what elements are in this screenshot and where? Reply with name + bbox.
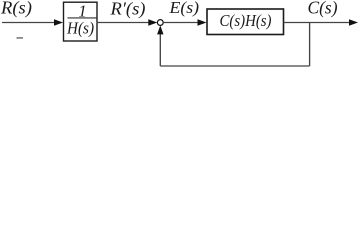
svg-text:H(s): H(s) [66,19,94,38]
wire feedback up segment with arrow into junction [159,32,161,66]
block U1 1/H(s) [64,2,98,41]
summing junction [157,20,163,26]
wire junction to block G2 with arrow [163,22,199,24]
wire feedback down segment [309,23,311,67]
svg-text:R′(s): R′(s) [109,0,145,20]
wire output with arrow [284,22,351,24]
svg-text:R(s): R(s) [0,0,32,19]
wire feedback bottom segment [160,65,309,67]
wire input with arrow into block G1 [2,22,56,24]
fraction bar [68,17,97,19]
block U2 C(s)H(s) [207,9,284,35]
minus sign label [17,37,24,39]
svg-text:E(s): E(s) [168,0,199,17]
svg-text:C(s)H(s): C(s)H(s) [220,11,272,30]
svg-text:C(s): C(s) [308,0,338,19]
wire block1 to summing junction with arrow [97,22,151,24]
